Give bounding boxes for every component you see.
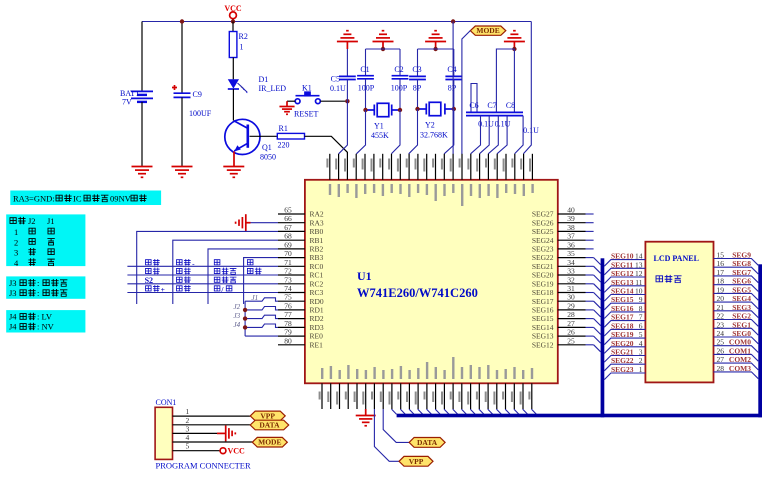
svg-text:COM2: COM2 — [729, 355, 751, 364]
wire R1 to U1 pin — [305, 136, 348, 154]
junction J2 — [243, 308, 247, 312]
svg-text:LCD PANEL: LCD PANEL — [654, 254, 699, 263]
svg-text:9: 9 — [639, 295, 643, 304]
CON1 pin 1 to VPP — [173, 415, 251, 417]
wire rail right drop to U1 — [523, 22, 531, 154]
connector CON1 — [155, 407, 172, 459]
jumper J1 — [245, 298, 278, 301]
capacitor C9 100UF — [174, 92, 191, 94]
svg-text:32.768K: 32.768K — [420, 131, 448, 140]
wire Y2 right to U1 — [444, 109, 454, 154]
svg-text:IC: IC — [73, 194, 82, 204]
U1 left pins 65-80 — [278, 206, 324, 350]
jumper J2 — [245, 307, 278, 310]
svg-text:RC2: RC2 — [310, 279, 324, 288]
wire Q1 base to R1 — [250, 135, 278, 137]
svg-text:26: 26 — [717, 346, 725, 355]
svg-text:SEG13: SEG13 — [532, 332, 554, 341]
svg-text:SEG14: SEG14 — [532, 323, 554, 332]
svg-text:32: 32 — [567, 275, 575, 284]
svg-text:RA2: RA2 — [310, 210, 324, 219]
wire K1 left to ground — [287, 100, 295, 102]
svg-text:C4: C4 — [447, 65, 456, 74]
svg-text:RC1: RC1 — [310, 271, 324, 280]
svg-text:C2: C2 — [394, 65, 403, 74]
svg-text:SEG18: SEG18 — [532, 288, 554, 297]
svg-text:COM1: COM1 — [729, 346, 751, 355]
svg-text:COM3: COM3 — [729, 364, 751, 373]
svg-text:J2: J2 — [234, 303, 241, 311]
svg-text:SEG24: SEG24 — [532, 236, 554, 245]
power port VCC top — [230, 12, 237, 19]
junction Y2 gnd — [433, 47, 437, 51]
ground U1 bottom — [356, 416, 376, 426]
svg-text:1: 1 — [639, 365, 643, 374]
svg-text:5: 5 — [639, 330, 643, 339]
svg-text:SEG7: SEG7 — [732, 268, 751, 277]
wire RA3 to ground — [251, 222, 279, 224]
svg-text:SEG22: SEG22 — [611, 356, 634, 365]
wire R2 to D1 — [232, 58, 234, 80]
svg-text:68: 68 — [284, 232, 292, 241]
wire D1 to Q1 collector — [232, 89, 234, 121]
svg-text:20: 20 — [717, 294, 725, 303]
svg-text:VCC: VCC — [228, 447, 246, 456]
svg-text:13: 13 — [635, 260, 643, 269]
net port VPP bottom — [399, 456, 433, 466]
svg-text:RC0: RC0 — [310, 262, 324, 271]
wire Y1 left to U1 — [356, 110, 365, 154]
CON1 pin 2 to DATA — [173, 424, 251, 426]
diode D1 IR_LED — [228, 79, 248, 93]
svg-text:24: 24 — [717, 329, 725, 338]
svg-text:VPP: VPP — [409, 457, 424, 466]
wire C3 upper — [417, 49, 419, 76]
wire jumper return row79 — [245, 335, 278, 337]
ground Y1 network — [373, 31, 394, 42]
svg-text:DATA: DATA — [417, 438, 438, 447]
svg-text:: LV: : LV — [37, 312, 53, 322]
svg-text:SEG16: SEG16 — [532, 306, 554, 315]
svg-text:SEG10: SEG10 — [611, 252, 634, 261]
wire key column 2 — [173, 240, 278, 304]
wire battery drop — [141, 22, 143, 92]
svg-text:SEG11: SEG11 — [611, 260, 633, 269]
svg-text:35: 35 — [567, 249, 575, 258]
svg-text:RE0: RE0 — [310, 332, 324, 341]
svg-text:4: 4 — [186, 433, 190, 442]
svg-text:SEG0: SEG0 — [732, 329, 751, 338]
svg-text:5: 5 — [186, 442, 190, 451]
capacitor C5 0.1U — [339, 75, 356, 77]
svg-text:39: 39 — [567, 214, 575, 223]
svg-text:SEG15: SEG15 — [611, 295, 634, 304]
svg-text:36: 36 — [567, 240, 575, 249]
ground Q1 — [223, 167, 244, 178]
svg-text::: : — [37, 288, 39, 298]
crystal Y1 455K — [366, 103, 401, 116]
svg-text:66: 66 — [284, 214, 292, 223]
svg-text:3: 3 — [639, 348, 643, 357]
wire U1 SEG rows to bus — [594, 258, 601, 352]
wire C9 to ground — [181, 97, 183, 166]
svg-text:69: 69 — [284, 240, 292, 249]
svg-text:SEG14: SEG14 — [611, 287, 634, 296]
svg-text:33: 33 — [567, 267, 575, 276]
svg-text:8P: 8P — [448, 84, 457, 93]
svg-text:DATA: DATA — [259, 420, 280, 429]
svg-text:R2: R2 — [239, 32, 248, 41]
svg-text:73: 73 — [284, 275, 292, 284]
svg-text:J3: J3 — [9, 278, 17, 288]
svg-text:C1: C1 — [360, 65, 369, 74]
svg-text:RB2: RB2 — [310, 245, 324, 254]
svg-text:U1: U1 — [357, 269, 372, 283]
ground K1 — [279, 107, 294, 115]
svg-text:16: 16 — [717, 259, 725, 268]
CON1 pin 5 to VCC — [173, 450, 220, 452]
svg-text:80: 80 — [284, 336, 292, 345]
svg-text:J3: J3 — [234, 312, 241, 320]
svg-text:Q1: Q1 — [262, 143, 272, 152]
wire Y1 top box — [366, 48, 401, 50]
svg-text:S2: S2 — [145, 276, 153, 285]
wire C7 top — [496, 49, 514, 112]
svg-text:30: 30 — [567, 293, 575, 302]
capacitor C3 8P — [409, 75, 426, 77]
wire C9 drop — [181, 22, 183, 94]
svg-text:1: 1 — [240, 43, 244, 52]
svg-text:MODE: MODE — [258, 438, 281, 447]
svg-text:SEG3: SEG3 — [732, 303, 751, 312]
svg-text:RD3: RD3 — [310, 323, 324, 332]
svg-text:SEG17: SEG17 — [611, 313, 634, 322]
wire VCC rail — [142, 21, 531, 23]
svg-text:76: 76 — [284, 301, 292, 310]
wire C2 to Y1 node — [399, 79, 401, 110]
wire C6b to U1 — [479, 116, 489, 154]
svg-text:72: 72 — [284, 267, 292, 276]
wire key column 4 — [244, 258, 278, 304]
svg-text:RC3: RC3 — [310, 288, 324, 297]
svg-text:1: 1 — [186, 407, 190, 416]
wire VDD rail to U1 — [452, 22, 454, 155]
wire key column 3 — [208, 249, 278, 304]
svg-text:J3: J3 — [9, 288, 17, 298]
svg-text:J4: J4 — [9, 322, 17, 332]
junction J3 — [243, 316, 247, 320]
svg-text:100P: 100P — [391, 84, 408, 93]
svg-text:23: 23 — [717, 320, 725, 329]
junction Y1 gnd — [381, 47, 385, 51]
svg-text:7V: 7V — [122, 98, 132, 107]
svg-text:SEG2: SEG2 — [732, 312, 751, 321]
wire Y2 top box — [418, 48, 454, 50]
svg-text:38: 38 — [567, 223, 575, 232]
wire key row 4 — [127, 292, 278, 294]
svg-text:RD2: RD2 — [310, 314, 324, 323]
svg-text:RA3: RA3 — [310, 218, 324, 227]
svg-text:40: 40 — [567, 206, 575, 215]
wire DATA net — [383, 409, 409, 442]
jumper J3 — [245, 315, 278, 318]
wire C1 upper — [365, 49, 367, 76]
svg-text:SEG5: SEG5 — [732, 285, 751, 294]
note box RA3=GND — [10, 191, 161, 206]
svg-text:R1: R1 — [279, 124, 288, 133]
svg-text:2: 2 — [639, 356, 643, 365]
CON1 pin 3 to ground — [173, 432, 218, 434]
ground C9 — [172, 167, 193, 178]
bus segment bottom horizontal — [397, 414, 762, 418]
svg-text:1: 1 — [14, 227, 18, 237]
op-amp U1 body W741E260/W741C260 — [305, 180, 558, 383]
svg-text:18: 18 — [717, 277, 725, 286]
svg-text:J4: J4 — [9, 312, 17, 322]
transistor Q1 8050 — [225, 119, 260, 154]
label key matrix row1 — [145, 260, 151, 265]
wire C1 to Y1 node — [365, 79, 367, 110]
junction Y2 right — [452, 107, 456, 111]
note box J3 — [6, 276, 85, 298]
U1 bottom pins — [319, 357, 534, 409]
svg-text:27: 27 — [567, 319, 575, 328]
ground CON1 sideways — [226, 425, 236, 441]
svg-text:SEG17: SEG17 — [532, 297, 554, 306]
svg-text:34: 34 — [567, 258, 575, 267]
svg-text::: : — [37, 278, 39, 288]
wire VCC to R2 — [232, 22, 234, 32]
power port MODE top — [470, 26, 506, 35]
svg-text:SEG12: SEG12 — [611, 269, 634, 278]
svg-text:29: 29 — [567, 301, 575, 310]
svg-text:28: 28 — [717, 364, 725, 373]
capacitor C2 100P — [392, 75, 409, 77]
jumper J4 — [245, 324, 278, 327]
ground C7 C8 — [504, 31, 525, 42]
wire C6 hat — [471, 84, 477, 113]
svg-text:11: 11 — [635, 278, 642, 287]
svg-text:SEG12: SEG12 — [532, 340, 554, 349]
svg-text:71: 71 — [284, 258, 292, 267]
svg-text:C5: C5 — [331, 75, 340, 84]
wire C8 top — [513, 49, 515, 112]
svg-text:IR_LED: IR_LED — [259, 84, 287, 93]
power port VCC bottom — [220, 448, 226, 454]
svg-text:MODE: MODE — [476, 26, 499, 35]
CON1 pin 4 to MODE — [173, 441, 253, 443]
wire C5 upper — [346, 49, 348, 76]
svg-text:SEG25: SEG25 — [532, 227, 554, 236]
bus segment right vertical — [758, 264, 762, 417]
svg-text:Y1: Y1 — [374, 122, 384, 131]
svg-text:7: 7 — [639, 313, 643, 322]
wire Q1 emitter to ground — [233, 151, 235, 166]
LCD left pins — [604, 252, 645, 380]
svg-text:SEG20: SEG20 — [532, 271, 554, 280]
wire U1 bottom gnd — [365, 409, 367, 416]
svg-text:0.1U: 0.1U — [330, 84, 346, 93]
note box machine type table — [6, 214, 85, 266]
wire C8b to U1 — [515, 116, 524, 154]
wire C4 upper — [453, 49, 455, 76]
ground RA3 sideways — [236, 214, 246, 231]
svg-text:14: 14 — [635, 252, 643, 261]
junction C9 — [180, 19, 184, 23]
U1 top pins — [326, 154, 533, 206]
svg-text:C3: C3 — [412, 65, 421, 74]
svg-text:8: 8 — [639, 304, 643, 313]
svg-text:6: 6 — [639, 321, 643, 330]
junction Y1 right — [398, 108, 402, 112]
svg-text:09NV: 09NV — [110, 194, 132, 204]
capacitor C4 8P — [445, 75, 462, 77]
wire key column 1 — [137, 231, 278, 304]
wire Y1 right to U1 — [391, 110, 400, 154]
svg-text:J4: J4 — [234, 321, 241, 329]
svg-text:21: 21 — [717, 303, 725, 312]
svg-text:10: 10 — [635, 287, 643, 296]
svg-text:37: 37 — [567, 232, 575, 241]
svg-text:25: 25 — [567, 336, 575, 345]
svg-text:RB3: RB3 — [310, 253, 324, 262]
svg-text:SEG20: SEG20 — [611, 339, 634, 348]
U1 bottom pin bus hooks — [392, 409, 537, 414]
wire key row 3 — [127, 283, 278, 285]
battery BATT 7V — [131, 91, 153, 102]
label key matrix row2 — [145, 268, 151, 273]
junction C8 gnd — [512, 47, 516, 51]
svg-text:31: 31 — [567, 284, 575, 293]
svg-text:RA3=GND:: RA3=GND: — [13, 194, 55, 204]
LCD panel body — [645, 242, 713, 383]
svg-text:SEG19: SEG19 — [611, 330, 634, 339]
svg-text:C6: C6 — [469, 101, 478, 110]
svg-text:SEG27: SEG27 — [532, 210, 554, 219]
LCD right pins — [714, 251, 759, 379]
svg-text:SEG26: SEG26 — [532, 218, 554, 227]
junction J4 — [243, 325, 247, 329]
junction Y2 left — [415, 107, 419, 111]
svg-text:3: 3 — [14, 248, 18, 258]
svg-text:W741E260/W741C260: W741E260/W741C260 — [357, 286, 478, 300]
svg-text:RD0: RD0 — [310, 297, 324, 306]
wire C3 to Y2 node — [417, 80, 419, 110]
svg-text:70: 70 — [284, 249, 292, 258]
svg-text:SEG18: SEG18 — [611, 321, 634, 330]
svg-text:220: 220 — [278, 141, 290, 150]
wire C5 lower / RES to U1 — [346, 80, 348, 102]
wire VPP net — [374, 409, 399, 461]
svg-text:SEG19: SEG19 — [532, 279, 554, 288]
svg-text:79: 79 — [284, 328, 292, 337]
svg-text:SEG22: SEG22 — [532, 253, 554, 262]
ground battery — [132, 167, 153, 178]
junction RES node — [345, 99, 349, 103]
wire C7 bottom to U1 — [488, 116, 498, 154]
svg-text:VCC: VCC — [224, 4, 242, 13]
label LCD chinese — [656, 276, 663, 282]
svg-text:SEG8: SEG8 — [732, 259, 751, 268]
svg-text:25: 25 — [717, 338, 725, 347]
svg-text:RB1: RB1 — [310, 236, 324, 245]
svg-text:65: 65 — [284, 206, 292, 215]
wire jumper common — [244, 301, 246, 336]
svg-text:SEG9: SEG9 — [732, 251, 751, 260]
svg-text:RE1: RE1 — [310, 340, 324, 349]
resistor R1 220 — [277, 133, 304, 139]
svg-text:SEG21: SEG21 — [611, 348, 634, 357]
svg-text:22: 22 — [717, 312, 725, 321]
svg-text:C7: C7 — [487, 101, 496, 110]
svg-text:SEG6: SEG6 — [732, 277, 751, 286]
svg-text:SEG15: SEG15 — [532, 314, 554, 323]
svg-text:17: 17 — [717, 268, 725, 277]
svg-text:75: 75 — [284, 293, 292, 302]
U1 right pins 40-25 — [532, 206, 594, 350]
ground Y2 network — [425, 31, 446, 42]
svg-text:19: 19 — [717, 285, 725, 294]
svg-text:67: 67 — [284, 223, 292, 232]
svg-text:C9: C9 — [193, 90, 202, 99]
svg-text:RESET: RESET — [294, 110, 319, 119]
wire key row 1 — [127, 265, 278, 267]
svg-text:CON1: CON1 — [156, 398, 177, 407]
svg-text:27: 27 — [717, 355, 725, 364]
junction VCC — [231, 19, 235, 23]
wire C2 upper — [399, 49, 401, 76]
svg-text:26: 26 — [567, 328, 575, 337]
net port DATA bottom — [409, 438, 445, 448]
wire battery to ground — [141, 102, 143, 167]
wire C8 bottom to U1 — [497, 116, 507, 154]
bus segment mid vertical — [601, 258, 605, 417]
svg-text:4: 4 — [639, 339, 643, 348]
svg-text:0.1U: 0.1U — [495, 120, 511, 129]
wire MODE to U1 — [462, 31, 470, 154]
svg-text:SEG21: SEG21 — [532, 262, 554, 271]
note box J4 — [6, 310, 85, 332]
svg-text:78: 78 — [284, 319, 292, 328]
svg-text:8050: 8050 — [260, 153, 276, 162]
svg-text:100P: 100P — [358, 84, 375, 93]
svg-text:77: 77 — [284, 310, 292, 319]
wire C4 to Y2 node — [453, 80, 455, 110]
junction Y1 left — [363, 108, 367, 112]
svg-text:SEG13: SEG13 — [611, 278, 634, 287]
svg-text:2: 2 — [14, 237, 18, 247]
junction VDD rail — [451, 19, 455, 23]
svg-text:Y2: Y2 — [425, 121, 435, 130]
svg-text:J1: J1 — [252, 294, 259, 302]
label key matrix row4 — [145, 286, 151, 291]
svg-text:455K: 455K — [371, 131, 389, 140]
svg-text:PROGRAM CONNECTER: PROGRAM CONNECTER — [156, 461, 251, 471]
svg-text:VPP: VPP — [260, 411, 275, 420]
svg-text:COM0: COM0 — [729, 338, 751, 347]
svg-text:+: + — [161, 285, 165, 294]
capacitor C6 0.1U — [466, 111, 523, 113]
svg-text:D1: D1 — [259, 75, 269, 84]
svg-text:C8: C8 — [506, 101, 515, 110]
crystal Y2 32.768K — [418, 102, 454, 115]
svg-text:SEG4: SEG4 — [732, 294, 751, 303]
resistor R2 value 1 — [229, 32, 237, 58]
ground C5 — [337, 31, 358, 42]
svg-text:K1: K1 — [302, 84, 312, 93]
capacitor C1 100P — [357, 75, 374, 77]
wire Y2 left to U1 — [409, 109, 418, 154]
